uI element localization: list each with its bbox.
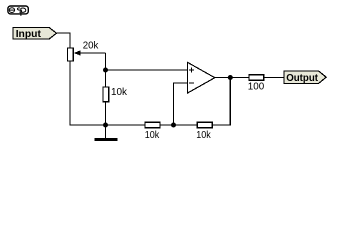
potentiometer VR1 20k body bbox=[67, 40, 105, 62]
svg-text:10k: 10k bbox=[196, 129, 211, 141]
Output terminal bbox=[284, 71, 326, 84]
wire node D to R5 bbox=[230, 77, 249, 79]
wire wiper down to node bbox=[105, 53, 107, 70]
wire R3 to node C bbox=[160, 124, 174, 126]
svg-text:10k: 10k bbox=[111, 86, 128, 98]
wire node A to op-amp + input bbox=[106, 69, 188, 71]
wire input tag to corner bbox=[57, 33, 71, 48]
+ symbol bbox=[189, 69, 194, 71]
svg-text:Output: Output bbox=[286, 72, 318, 84]
node B (ground junction) bbox=[103, 123, 108, 128]
Input terminal bbox=[13, 27, 57, 40]
svg-text:10k: 10k bbox=[145, 129, 160, 141]
wire R4 right and up to output node bbox=[212, 78, 230, 126]
node C (feedback junction) bbox=[171, 123, 176, 128]
wire node C to R4 bbox=[174, 124, 198, 126]
resistor R2 10k (vertical) bbox=[103, 86, 128, 102]
wire op-amp output to node D bbox=[215, 77, 231, 79]
node D (output junction) bbox=[228, 75, 233, 80]
wire node B to R3 bbox=[106, 124, 146, 126]
resistor R5 100 bbox=[248, 75, 265, 93]
resistor R4 10k (bottom right) bbox=[196, 122, 212, 141]
op-amp U1 bbox=[188, 62, 215, 93]
svg-text:20k: 20k bbox=[83, 40, 99, 52]
wiper arrow bbox=[77, 52, 106, 54]
node A (wiper / +input junction) bbox=[103, 68, 108, 73]
wire node C up to op-amp - input bbox=[174, 83, 188, 125]
svg-text:Input: Input bbox=[16, 28, 42, 40]
wire R2 bottom to ground node bbox=[105, 102, 107, 125]
wire pot bottom down to bottom rail bbox=[70, 61, 103, 125]
ground bbox=[95, 125, 118, 139]
svg-text:100: 100 bbox=[248, 81, 265, 93]
- symbol bbox=[189, 82, 194, 84]
wire node A down to R2 bbox=[105, 70, 107, 87]
ESP logo bbox=[8, 6, 28, 16]
resistor R3 10k (bottom left) bbox=[145, 122, 160, 141]
wire R5 to output tag bbox=[264, 77, 284, 79]
